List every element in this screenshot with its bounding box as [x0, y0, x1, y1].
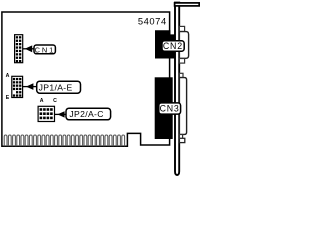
label JP2/A-C with pointer — [55, 113, 67, 115]
label CN2 — [162, 41, 184, 51]
jumper block JP1 — [12, 76, 23, 97]
bracket top tab — [175, 3, 200, 6]
CN3 external connector (right of bracket) — [179, 73, 183, 77]
svg-text:CN3: CN3 — [160, 104, 180, 114]
label JP1/A-E with pointer — [23, 86, 38, 88]
svg-text:A: A — [40, 98, 44, 104]
bracket bottom tab — [179, 138, 184, 142]
jumper block JP2 — [38, 106, 54, 121]
svg-text:JP1/A-E: JP1/A-E — [39, 83, 73, 93]
svg-text:E: E — [6, 95, 10, 101]
label CN3 — [159, 103, 181, 114]
svg-text:C: C — [53, 98, 57, 104]
CN2 external connector (right of bracket) — [179, 26, 184, 31]
svg-text:JP2/A-C: JP2/A-C — [69, 109, 103, 119]
svg-text:54074: 54074 — [138, 16, 167, 27]
PCB board outline — [2, 12, 170, 146]
svg-text:CN1: CN1 — [35, 46, 56, 55]
connector CN3 body (black, on board) — [155, 77, 173, 139]
svg-text:A: A — [6, 73, 10, 79]
mounting bracket strip — [175, 3, 179, 175]
connector CN2 body (black, on board) — [155, 30, 176, 58]
connector CN1 header block — [15, 35, 23, 63]
label CN1 with pointer — [23, 48, 36, 50]
svg-text:CN2: CN2 — [163, 41, 183, 51]
card edge connector fingers — [4, 135, 124, 146]
